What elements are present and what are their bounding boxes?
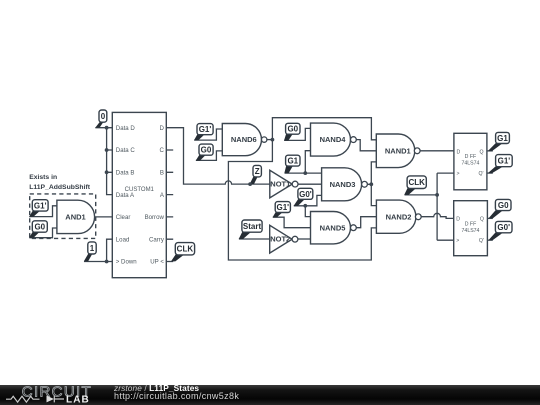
wire: 0 flag bus to Data D/C/B/A	[95, 128, 112, 195]
svg-text:G0: G0	[34, 222, 45, 231]
svg-text:CLK: CLK	[408, 178, 425, 187]
net flag G1' at NAND6	[194, 124, 213, 141]
wire: CUSTOM1 D output to NOT1 input (node Z), hop over vertical	[166, 128, 269, 184]
svg-text:Carry: Carry	[149, 236, 165, 243]
wire: 1 flag to Down and Load pins	[84, 239, 112, 261]
wire: CLK flag to U1 and U2 clock pins	[405, 173, 454, 240]
wire: G0 flag to AND1 input 2	[29, 228, 57, 238]
net flag G1' at U1 Q'	[488, 155, 512, 173]
wire: NAND6 output bottom route to NAND2 input 3	[228, 140, 376, 260]
wire: G0' flag to NAND3 input 3 and NAND5 input 1	[294, 195, 322, 216]
svg-text:74LS74: 74LS74	[461, 161, 479, 167]
gate NAND3	[322, 168, 368, 201]
wire: G1' flag to NAND6 input 1	[194, 129, 222, 140]
wire: G0 flag to NAND6 input 2	[196, 151, 222, 161]
wire: G1' flag to AND1 input 1	[29, 206, 57, 217]
svg-text:G1': G1'	[277, 203, 290, 212]
net flag G1 at NAND3	[284, 155, 300, 173]
svg-text:1: 1	[90, 244, 95, 253]
net flag G0' at NAND3/NAND5	[294, 188, 313, 206]
wire: NOT1 output to NAND3 input 2	[298, 183, 322, 185]
svg-text:> Down: > Down	[116, 259, 137, 266]
svg-text:NOT2: NOT2	[270, 235, 290, 244]
svg-text:Borrow: Borrow	[145, 214, 165, 221]
svg-text:0: 0	[101, 112, 106, 121]
CircuitLab logo squiggle resistor and diode	[6, 396, 40, 402]
net flag Z	[250, 165, 262, 184]
junction: 1 net at Down	[105, 260, 109, 264]
svg-text:D FF: D FF	[465, 222, 477, 228]
gate NAND4	[311, 123, 357, 156]
svg-text:NAND6: NAND6	[231, 135, 257, 144]
svg-text:NAND4: NAND4	[320, 135, 347, 144]
gate NAND5	[311, 212, 357, 244]
svg-text:G0': G0'	[497, 223, 510, 232]
wire: NAND3 output to NAND1 input 3 and NAND2 input 1	[367, 162, 376, 206]
junction: NAND3 output fanout	[369, 182, 373, 186]
svg-text:http://circuitlab.com/cnw5z8k: http://circuitlab.com/cnw5z8k	[114, 391, 239, 401]
svg-text:NAND1: NAND1	[385, 146, 411, 155]
net flag G1' at AND1	[29, 200, 48, 217]
net flag CLK at flip-flops	[404, 176, 426, 195]
svg-text:C: C	[159, 147, 164, 154]
svg-text:Data C: Data C	[116, 147, 136, 154]
svg-text:UP <: UP <	[150, 259, 164, 266]
net flag 0	[95, 110, 107, 128]
gate NAND2	[376, 200, 421, 233]
net flag Start	[239, 220, 262, 239]
net flag 1	[84, 242, 96, 262]
junction: NAND6 output fanout	[271, 138, 275, 142]
svg-text:D: D	[159, 125, 164, 132]
wire: U2 Q to G0 flag	[487, 217, 492, 219]
wire: NAND6 output top route to NAND1 input 1	[272, 118, 376, 140]
wire: NAND2 output to U2 D input, hop over CLK vertical	[421, 213, 454, 218]
wire: U2 Q' to G0' flag	[487, 239, 492, 241]
svg-text:Start: Start	[243, 222, 262, 231]
svg-text:AND1: AND1	[65, 213, 85, 222]
inverter NOT1	[270, 170, 298, 198]
svg-text:NOT1: NOT1	[270, 180, 290, 189]
net flag G0 at NAND6	[196, 144, 213, 161]
net flag G0 at U2 Q	[489, 199, 511, 218]
wire: NAND6 output stub	[267, 139, 273, 141]
dashed annotation box around AND1	[30, 194, 96, 239]
wire: U1 Q' to G1' flag	[487, 172, 493, 174]
svg-text:Exists in: Exists in	[29, 174, 57, 181]
svg-text:G1': G1'	[34, 201, 47, 210]
wire: NOT2 output to NAND5 input 3	[298, 238, 311, 240]
wire: G1' flag to NAND5 input 2	[273, 217, 311, 228]
flip-flop U1 D FF 74LS74	[454, 133, 487, 190]
svg-text:Clear: Clear	[116, 214, 131, 221]
svg-text:G1': G1'	[199, 125, 212, 134]
net flag CLK at CUSTOM1 UP pin	[171, 243, 195, 262]
wire: UP pin stub to CLK flag	[166, 261, 173, 263]
svg-text:NAND3: NAND3	[330, 180, 356, 189]
svg-text:NAND2: NAND2	[386, 212, 412, 221]
svg-text:G0': G0'	[299, 190, 312, 199]
gate NAND1	[376, 134, 420, 168]
junction: CLK net fanout	[435, 193, 439, 197]
svg-text:G1': G1'	[498, 157, 511, 166]
junction: G0' net fanout	[303, 204, 307, 208]
svg-text:Q': Q'	[479, 171, 484, 177]
svg-text:G0: G0	[498, 201, 509, 210]
svg-text:Q': Q'	[479, 238, 484, 244]
wire: NAND5 output to NAND2 input 2	[356, 217, 376, 228]
svg-text:>: >	[457, 171, 460, 177]
svg-text:74LS74: 74LS74	[462, 228, 480, 234]
net flag G1' at NAND5	[273, 202, 291, 218]
svg-text:Q: Q	[480, 216, 484, 222]
svg-text:Load: Load	[116, 236, 130, 243]
svg-text:Data B: Data B	[116, 170, 135, 177]
svg-text:G1: G1	[497, 134, 508, 143]
svg-text:CUSTOM1: CUSTOM1	[125, 187, 155, 193]
svg-text:D: D	[456, 216, 460, 222]
wire: NAND4 output to NAND1 input 2	[356, 140, 376, 151]
inverter NOT2	[270, 225, 298, 253]
svg-text:B: B	[160, 170, 164, 177]
net flag G0 at NAND4	[284, 123, 300, 140]
wire: NAND1 output to U1 D input	[420, 150, 454, 152]
wire: G1 flag to NAND3 input 1 and NAND4 input 2	[285, 151, 322, 173]
junction: node Z tap	[248, 182, 252, 186]
svg-text:L11P_AddSubShift: L11P_AddSubShift	[29, 184, 91, 191]
svg-text:G1: G1	[287, 157, 298, 166]
svg-text:NAND5: NAND5	[320, 223, 346, 232]
wire: unconnected right stubs C B A Borrow Carry	[166, 150, 173, 239]
junction: bus at Data B	[105, 170, 109, 174]
svg-text:Data D: Data D	[116, 125, 136, 132]
svg-text:G0: G0	[287, 125, 298, 134]
wire: U1 Q to G1 flag	[487, 150, 493, 152]
net flag G0' at U2 Q'	[489, 221, 512, 240]
svg-text:CLK: CLK	[177, 245, 194, 254]
gate NAND6	[222, 124, 267, 156]
custom block CUSTOM1	[112, 112, 166, 277]
svg-text:D FF: D FF	[465, 154, 477, 160]
svg-text:>: >	[456, 238, 459, 244]
net flag G1 at U1 Q	[488, 132, 509, 151]
junction: bus at Data C	[105, 148, 109, 152]
junction: bus at Data D	[105, 126, 109, 130]
svg-text:D: D	[457, 149, 461, 155]
junction: G1 net fanout	[303, 171, 307, 175]
wire: AND1 output to Clear pin	[95, 216, 113, 218]
op-amp n/a: gate AND1	[57, 200, 95, 233]
svg-text:G0: G0	[201, 146, 212, 155]
net flag G0 at AND1	[29, 221, 47, 238]
wire: G0 flag to NAND4 input 1	[284, 128, 310, 140]
svg-text:Z: Z	[255, 167, 260, 176]
svg-text:LAB: LAB	[66, 395, 90, 405]
wire: Start flag to NOT2 input	[239, 238, 270, 240]
flip-flop U2 D FF 74LS74	[454, 201, 488, 256]
svg-text:Q: Q	[480, 149, 484, 155]
